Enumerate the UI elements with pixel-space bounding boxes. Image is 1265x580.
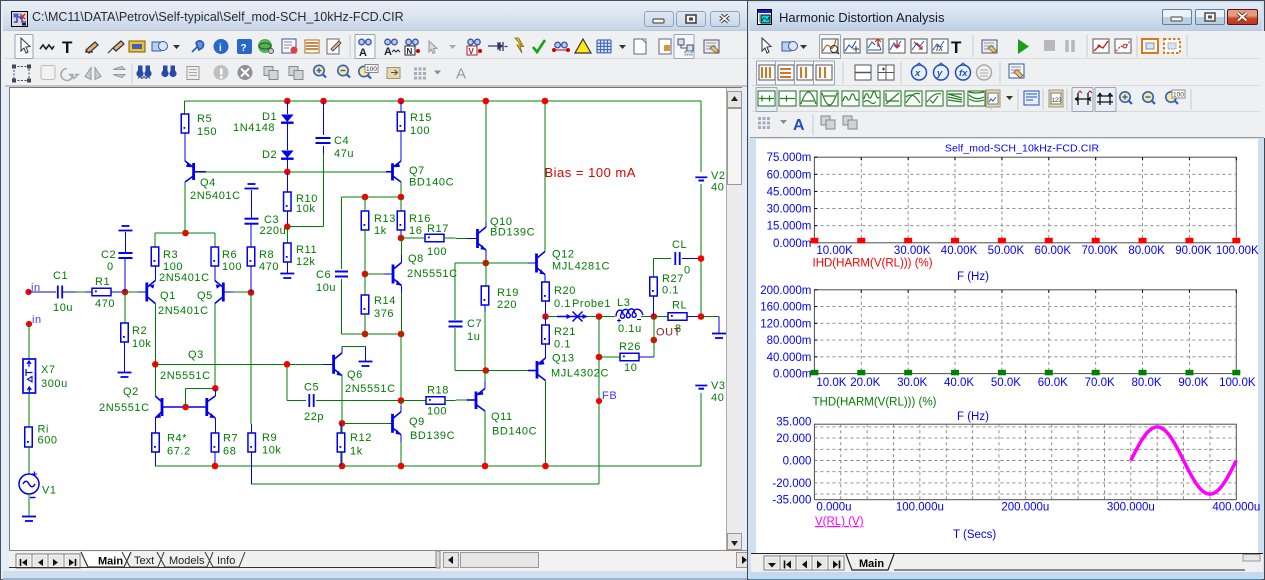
wire Q13 collector to rail: [545, 381, 547, 467]
wire feedback bottom y=483: [251, 483, 599, 485]
wire C5 branch vertical: [286, 364, 288, 400]
svg-text:12k: 12k: [296, 256, 316, 268]
svg-text:A: A: [793, 117, 805, 134]
svg-text:BD139C: BD139C: [410, 430, 455, 442]
junction R16 top: [398, 194, 405, 201]
wire C7 branch upper: [454, 263, 456, 320]
label RL: [672, 300, 687, 312]
svg-text:600: 600: [38, 435, 58, 447]
ground below R2: [118, 373, 132, 378]
junction C5-R18-Q9: [398, 397, 405, 404]
ground Q6 collector: [359, 362, 373, 367]
wire R15 to Q7: [400, 131, 402, 161]
wire Q9 emitter to rail: [400, 442, 402, 466]
junction R26 left: [596, 354, 603, 361]
wire R14 to bottom: [364, 314, 366, 334]
svg-text:80.0K: 80.0K: [1132, 377, 1162, 389]
svg-text:60.0K: 60.0K: [1038, 377, 1068, 389]
junction Q12 base node: [483, 260, 490, 267]
svg-text:V2: V2: [711, 170, 726, 182]
wire node left to C7 branch: [455, 262, 486, 264]
diode D1 1N4148: [281, 115, 294, 123]
junction C5 branch top: [284, 361, 291, 368]
junction Q13 rail: [542, 463, 549, 470]
wire R10 to lower node: [286, 211, 288, 227]
svg-text:47u: 47u: [334, 148, 354, 160]
wire CL to rail: [682, 258, 701, 260]
wire Q10 collector stub: [485, 222, 487, 227]
capacitor C2: [119, 253, 133, 258]
probe Probe1 symbol: [557, 312, 588, 322]
svg-text:100: 100: [1173, 92, 1184, 99]
wire FB vertical x=598: [598, 401, 600, 484]
transistor Q4 2N5401C (pnp): [185, 161, 206, 182]
svg-text:OUT: OUT: [656, 327, 681, 339]
svg-text:20.000: 20.000: [776, 433, 811, 445]
wire lower node y=333: [342, 333, 402, 335]
svg-text:R7: R7: [223, 433, 238, 445]
junction Q13 base node: [483, 367, 490, 374]
wire node down to R9: [250, 293, 252, 425]
label C5 22p: [304, 382, 324, 424]
svg-text:0.000u: 0.000u: [816, 502, 851, 514]
svg-text:in: in: [32, 314, 42, 326]
ground below V1: [22, 517, 36, 522]
label R15 100: [410, 112, 432, 137]
svg-text:2N5551C: 2N5551C: [99, 402, 150, 414]
svg-text:R6: R6: [222, 249, 237, 261]
resistor R6: [211, 247, 219, 266]
svg-text:Bias = 100 mA: Bias = 100 mA: [545, 165, 636, 180]
capacitor C5: [309, 394, 313, 407]
wire Q7 collector down: [400, 182, 402, 197]
svg-text:0.000: 0.000: [783, 456, 812, 468]
wire X7 to Ri: [28, 393, 30, 427]
svg-text:220: 220: [497, 299, 517, 311]
svg-text:V(RL) (V): V(RL) (V): [815, 516, 864, 528]
resistor Ri: [25, 427, 33, 447]
junction R15 top: [398, 98, 405, 105]
ground output: [712, 334, 726, 339]
wire Q2 emitter to R4: [154, 418, 156, 433]
svg-text:fx: fx: [936, 43, 944, 53]
svg-text:F (Hz): F (Hz): [957, 271, 989, 283]
wire L3 to OUT node: [641, 316, 654, 318]
wire Q6 emitter down to rail: [341, 376, 343, 467]
label R18 100: [427, 385, 449, 418]
svg-text:30.000m: 30.000m: [767, 204, 812, 216]
wire C3 upper lead: [251, 190, 253, 219]
wire right rail mid segment: [700, 184, 702, 317]
wire Q10 emitter down: [485, 250, 487, 263]
svg-text:R11: R11: [296, 244, 317, 256]
svg-text:400.000u: 400.000u: [1212, 502, 1260, 514]
svg-text:35.000: 35.000: [776, 416, 811, 428]
wire Q5 base to node: [233, 291, 251, 293]
transistor Q2 2N5551C (npn, mirrored): [155, 396, 185, 418]
svg-text:1N4148: 1N4148: [233, 122, 275, 134]
svg-text:y: y: [936, 68, 943, 79]
wire R8 to node: [250, 266, 252, 293]
svg-text:2N5551C: 2N5551C: [407, 268, 458, 280]
svg-text:Q7: Q7: [409, 165, 425, 177]
label Ri 600: [38, 424, 58, 447]
svg-text:22p: 22p: [304, 411, 324, 423]
wire Q8 emitter down: [401, 286, 403, 294]
resistor R2: [121, 323, 129, 342]
wire C5 to R18 node: [316, 400, 401, 402]
svg-text:150: 150: [197, 126, 217, 138]
capacitor CL: [675, 252, 679, 265]
svg-text:1u: 1u: [467, 331, 480, 343]
resistor R20: [542, 282, 550, 301]
ground above C2: [119, 226, 133, 231]
svg-text:C4: C4: [334, 135, 349, 147]
wire Q12 emitter to R20: [544, 275, 546, 283]
wire C7 to Q13 base node: [455, 370, 486, 372]
svg-text:BD140C: BD140C: [492, 426, 537, 438]
junction R10 bottom node: [284, 223, 291, 230]
wire C2 upper lead: [125, 232, 127, 253]
wire rail to D1: [286, 101, 288, 114]
wire to probe: [546, 316, 558, 318]
wire Q6 collector up: [341, 347, 343, 353]
svg-text:Q9: Q9: [409, 416, 425, 428]
wire Q6 collector to ground: [342, 346, 366, 348]
wire R4 to rail: [155, 452, 157, 466]
svg-text:470: 470: [259, 261, 279, 273]
wire to R16: [400, 197, 402, 211]
wire ground stub: [365, 347, 367, 362]
wire base node up: [185, 388, 187, 407]
svg-text:X7: X7: [41, 364, 56, 376]
junction R13 top: [362, 194, 369, 201]
wire Q11 emitter to rail: [484, 411, 486, 466]
node OUT: [651, 327, 682, 344]
wire Q4 collector to node: [184, 182, 186, 233]
svg-text:R4*: R4*: [167, 433, 187, 445]
svg-text:100: 100: [163, 261, 183, 273]
svg-text:-20.000: -20.000: [772, 478, 811, 490]
svg-text:fx: fx: [959, 68, 968, 79]
wire in to C1: [29, 291, 57, 293]
svg-text:220u: 220u: [260, 225, 287, 237]
junction x400 y333: [398, 331, 405, 338]
svg-text:A: A: [384, 46, 392, 58]
wire Q3 emitter to R7: [214, 418, 216, 433]
svg-text:x: x: [914, 68, 921, 79]
svg-text:120.000m: 120.000m: [760, 318, 811, 330]
svg-text:F (Hz): F (Hz): [957, 411, 989, 423]
svg-text:123: 123: [1052, 98, 1063, 104]
svg-text:N: N: [407, 47, 413, 56]
junction Q4 collector node: [182, 230, 189, 237]
wire to output ground: [701, 316, 719, 318]
svg-text:1k: 1k: [350, 446, 363, 458]
svg-text:R3: R3: [163, 249, 178, 261]
label R27 0.1: [662, 273, 684, 297]
wire D1 to D2: [286, 123, 288, 150]
wire node to Q12 base: [486, 262, 528, 264]
label C7 1u: [467, 318, 482, 343]
wire to R6: [214, 233, 216, 247]
wire R26 to OUT vertical: [639, 356, 654, 358]
wire R17 to Q10 base: [444, 237, 467, 240]
wire C3 to R8: [250, 224, 252, 247]
label R14 376: [374, 295, 396, 320]
resistor R21: [542, 325, 550, 344]
resistor R10: [284, 192, 292, 211]
svg-text:R13: R13: [374, 213, 396, 225]
svg-text:D2: D2: [262, 149, 277, 161]
junction Q3 collector: [212, 385, 219, 392]
svg-text:R26: R26: [619, 341, 641, 353]
svg-text:R8: R8: [259, 249, 274, 261]
svg-text:50.00K: 50.00K: [988, 245, 1025, 257]
svg-text:R5: R5: [197, 113, 212, 125]
svg-text:160.000m: 160.000m: [760, 302, 811, 314]
svg-text:T: T: [62, 38, 73, 57]
wire D2 to bias line: [286, 159, 288, 172]
label R9 10k: [262, 432, 282, 457]
diode D2: [281, 151, 294, 159]
wire Q5 emitter to R6: [214, 266, 216, 281]
svg-text:Models: Models: [169, 555, 205, 567]
transistor Q7 BD140C (pnp): [386, 161, 401, 182]
wire down to FB: [598, 317, 600, 402]
svg-text:300u: 300u: [41, 378, 68, 390]
junction R16-R17-Q8: [398, 235, 405, 242]
svg-text:2N5551C: 2N5551C: [160, 370, 211, 382]
wire to R12: [340, 423, 342, 433]
junction Q1 base node: [122, 289, 129, 296]
wire R12 to rail: [340, 452, 342, 466]
svg-text:R21: R21: [554, 326, 576, 338]
resistor R19: [481, 286, 489, 305]
svg-text:0: 0: [684, 265, 691, 277]
svg-text:MJL4302C: MJL4302C: [551, 368, 609, 380]
svg-text:10u: 10u: [53, 302, 73, 314]
wire R16 bottom: [400, 230, 402, 238]
wire to R26: [599, 356, 620, 358]
wire V1 to ground: [28, 494, 30, 517]
svg-text:0.1: 0.1: [662, 285, 679, 297]
junction mid-supply node: [698, 313, 705, 320]
svg-text:A: A: [456, 66, 466, 83]
label R2 10k: [132, 325, 152, 350]
svg-text:67.2: 67.2: [167, 446, 191, 458]
wire Q11 collector to node: [484, 371, 486, 382]
svg-text:BD140C: BD140C: [409, 177, 454, 189]
label V3 40: [711, 380, 726, 404]
label R8 470: [259, 249, 279, 273]
svg-text:100: 100: [427, 246, 447, 258]
svg-text:Q3: Q3: [188, 349, 204, 361]
wire C1-R1 gap: [76, 291, 85, 293]
svg-text:-35.000: -35.000: [772, 495, 811, 507]
svg-text:IHD(HARM(V(RL))) (%): IHD(HARM(V(RL))) (%): [813, 258, 933, 270]
ground above C3: [245, 184, 259, 189]
svg-text:300.000u: 300.000u: [1107, 502, 1155, 514]
resistor R26: [620, 353, 639, 361]
svg-text:T (Secs): T (Secs): [953, 529, 996, 541]
wire R16 node to R17: [401, 237, 425, 239]
svg-text:80.00K: 80.00K: [1128, 245, 1165, 257]
wire R18 to Q11 base: [445, 399, 467, 402]
svg-text:Probe1: Probe1: [572, 298, 611, 310]
capacitor C4: [316, 138, 331, 143]
svg-text:R14: R14: [374, 295, 396, 307]
svg-text:R20: R20: [554, 285, 576, 297]
wire C4 bottom lead: [323, 146, 325, 154]
wire C4 branch down: [323, 154, 325, 227]
wire node to R21: [545, 317, 547, 326]
wire Q1 emitter to R3: [154, 266, 156, 281]
wire RL to rail: [687, 316, 701, 318]
resistor R12: [337, 433, 345, 452]
wire rail to R5: [184, 101, 186, 114]
wire R1 to node: [111, 291, 125, 293]
svg-text:R2: R2: [132, 325, 147, 337]
wire node to R18: [401, 400, 426, 402]
junction Q5 base node: [248, 289, 255, 296]
svg-text:30.00K: 30.00K: [894, 245, 931, 257]
label R12 1k: [350, 432, 372, 458]
svg-text:100: 100: [427, 406, 447, 418]
svg-text:R19: R19: [497, 287, 519, 299]
wire Ri to V1: [28, 447, 30, 474]
junction R26 node: [596, 313, 603, 320]
wire R13 to Q8 base node: [364, 230, 366, 274]
transistor Q3 2N5551C (npn): [186, 396, 216, 418]
wire Q11 collector up: [484, 381, 486, 389]
resistor R1: [92, 288, 111, 296]
wire R5 to Q4 emitter: [184, 133, 186, 161]
svg-text:V: V: [469, 47, 475, 56]
svg-text:100.000u: 100.000u: [896, 502, 944, 514]
transistor Q13 MJL4302C (pnp): [528, 358, 546, 381]
svg-text:60.000m: 60.000m: [767, 169, 812, 181]
svg-text:16: 16: [409, 225, 422, 237]
wire R27 to output: [653, 296, 655, 317]
wire R21 to Q13: [545, 344, 547, 358]
svg-text:FB: FB: [602, 390, 617, 402]
svg-text:THD(HARM(V(RL))) (%): THD(HARM(V(RL))) (%): [813, 397, 937, 409]
source V1: [19, 472, 39, 498]
wire top positive rail y=100: [185, 100, 702, 102]
label R5 150: [197, 113, 217, 138]
svg-text:Q1: Q1: [160, 290, 176, 302]
transistor Q6 2N5551C (npn): [323, 353, 342, 376]
inductor L3: [616, 309, 643, 323]
wire R1 lead: [85, 291, 92, 293]
wire R19 bottom lead: [484, 305, 486, 312]
svg-text:Text: Text: [134, 555, 154, 567]
resistor R18: [426, 397, 445, 405]
resistor R7: [211, 433, 219, 452]
label C4 47u: [334, 135, 354, 160]
svg-text:200.000u: 200.000u: [1001, 502, 1049, 514]
charts area: [756, 139, 1258, 571]
svg-text:68: 68: [223, 446, 236, 458]
svg-text:100.0K: 100.0K: [1219, 377, 1256, 389]
svg-text:?: ?: [241, 43, 247, 54]
label R7 68: [223, 433, 238, 458]
label R4* 67.2: [167, 433, 191, 458]
battery V2: [695, 177, 707, 180]
junction Q12 collector rail: [542, 98, 549, 105]
wire rail to C4: [323, 101, 325, 135]
transistor Q5 2N5401C (pnp): [215, 281, 233, 304]
svg-text:C1: C1: [53, 270, 68, 282]
svg-text:15.000m: 15.000m: [767, 221, 812, 233]
node in (upper): [25, 282, 40, 295]
svg-text:100.00K: 100.00K: [1216, 245, 1259, 257]
resistor R5: [181, 114, 189, 133]
capacitor C1: [58, 286, 62, 299]
svg-text:75.000m: 75.000m: [767, 152, 812, 164]
wire Q10 collector to rail: [485, 101, 487, 222]
resistor R3: [151, 247, 159, 266]
wire right rail lower segment: [700, 393, 702, 466]
resistor R9: [248, 433, 256, 452]
wire node to R11: [286, 227, 288, 243]
svg-text:R9: R9: [262, 432, 277, 444]
wire node to C4 branch: [287, 226, 323, 228]
svg-text:Main: Main: [859, 558, 884, 570]
label R10 10k: [296, 193, 318, 215]
wire Q3 collector short: [214, 388, 216, 396]
svg-text:70.0K: 70.0K: [1085, 377, 1115, 389]
svg-text:10.00K: 10.00K: [816, 245, 853, 257]
wire node to R2: [124, 292, 126, 323]
capacitor C7: [449, 322, 463, 327]
wire node down to R19: [485, 263, 487, 286]
svg-text:0.1u: 0.1u: [618, 323, 642, 335]
junction D1 top: [284, 98, 291, 105]
wire Q8 collector to node: [401, 238, 403, 255]
wire R7 to rail: [214, 452, 216, 466]
junction Q2 collector node: [152, 361, 159, 368]
junction CL rail: [698, 255, 705, 262]
label R6 100: [222, 249, 242, 273]
label R17 100: [427, 223, 449, 258]
svg-text:1k: 1k: [374, 225, 387, 237]
wire R9 to feedback: [251, 452, 253, 484]
label R13 1k: [374, 213, 396, 237]
svg-text:100: 100: [222, 261, 242, 273]
svg-text:R15: R15: [410, 112, 432, 124]
delay line X7: [23, 359, 36, 393]
resistor R8: [247, 247, 255, 266]
svg-text:40: 40: [711, 392, 724, 404]
wire to R3: [154, 233, 156, 247]
label C6 10u: [316, 269, 336, 294]
wire node to Q1 base: [125, 291, 138, 293]
svg-text:R27: R27: [662, 273, 684, 285]
junction Q8 base node: [362, 271, 369, 278]
svg-text:Self_mod-SCH_10kHz-FCD.CIR: Self_mod-SCH_10kHz-FCD.CIR: [945, 143, 1100, 155]
schematic canvas: [9, 87, 742, 551]
svg-text:i: i: [219, 43, 222, 54]
svg-text:40.00K: 40.00K: [941, 245, 978, 257]
svg-text:90.0K: 90.0K: [1178, 377, 1208, 389]
svg-text:80.000m: 80.000m: [767, 335, 812, 347]
wire to R13: [364, 197, 366, 211]
svg-text:L3: L3: [617, 297, 630, 309]
junction Q9 base node: [339, 420, 346, 427]
wire probe to L3: [587, 316, 615, 318]
